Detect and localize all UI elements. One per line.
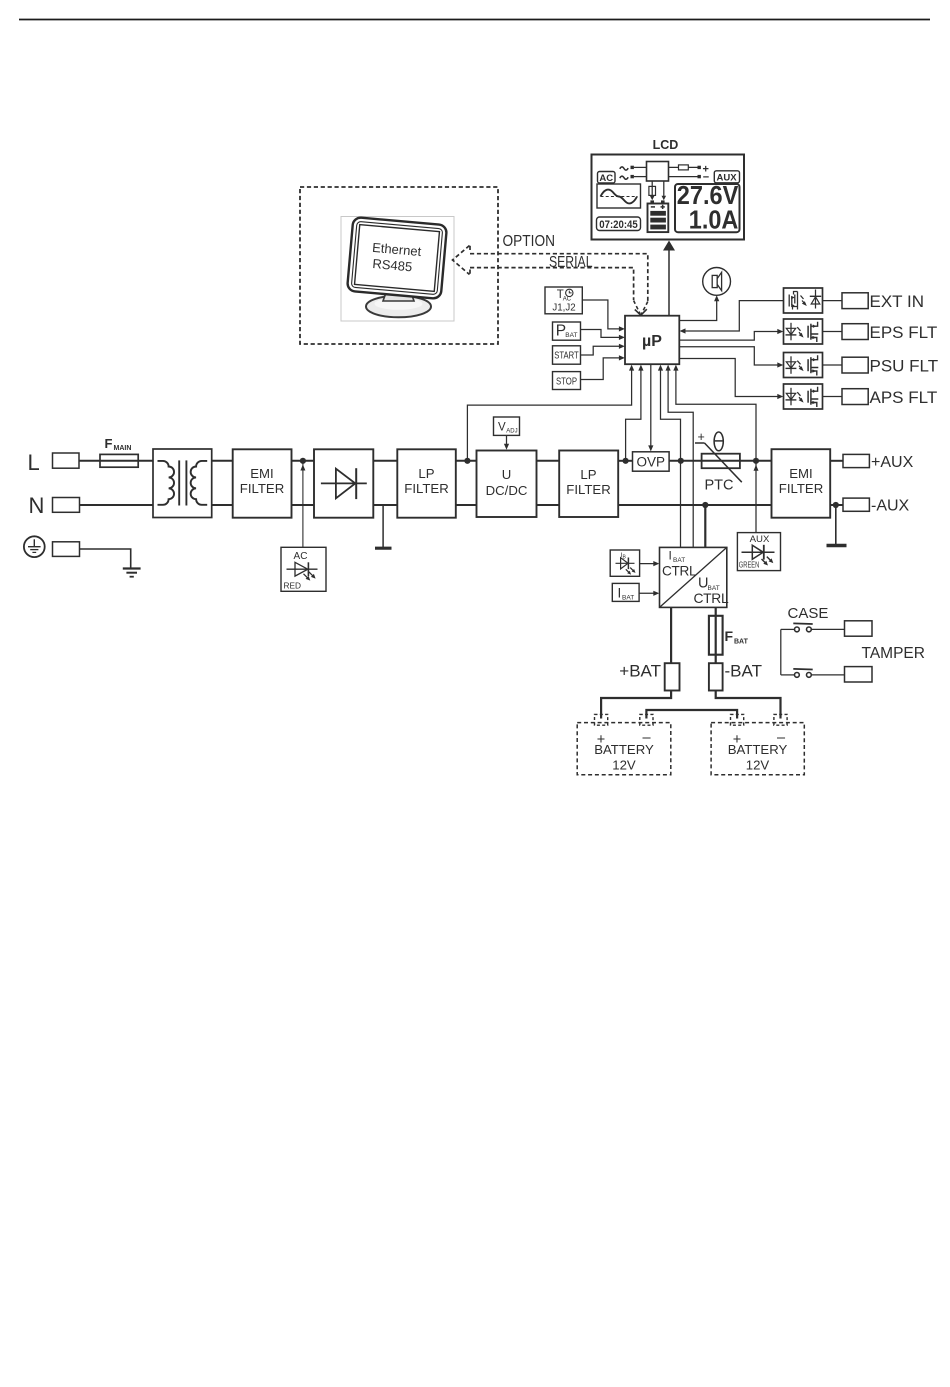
svg-text:MAIN: MAIN (114, 445, 132, 452)
node junction AUX LED tap (753, 458, 759, 464)
svg-text:LCD: LCD (653, 138, 679, 152)
EMI FILTER 1 (233, 449, 292, 517)
connector L (53, 453, 80, 468)
LCD sine-wave box (597, 184, 641, 208)
svg-text:BATTERY: BATTERY (728, 742, 788, 757)
svg-text:I: I (618, 586, 622, 601)
wire LP to UDC/DC (456, 460, 477, 462)
svg-text:F: F (725, 628, 734, 644)
LED AUX indicator GREEN (737, 533, 780, 571)
speaker buzzer (703, 268, 731, 296)
LCD rectifier block (647, 162, 669, 182)
earth PE connector symbol (24, 536, 45, 557)
svg-text:-BAT: -BAT (725, 662, 762, 681)
wire EMI2 to +AUX (830, 460, 843, 462)
box START (553, 346, 581, 364)
LCD AC tab (598, 172, 616, 184)
wire L to transformer (79, 460, 153, 462)
connector +BAT (665, 663, 680, 690)
svg-text:AC: AC (599, 173, 613, 184)
wire uP pin b to rail left of OVP (626, 368, 641, 459)
LCD measurement display 27.6V 1.0A (675, 184, 740, 232)
ground earth symbol (123, 567, 141, 569)
svg-text:L: L (28, 450, 40, 475)
box STOP (553, 372, 581, 390)
svg-text:+: + (698, 430, 705, 444)
svg-text:BAT: BAT (734, 639, 749, 646)
wire uP to buzzer (679, 299, 716, 321)
connector APS FLT (842, 389, 868, 405)
node junction -AUX ground (833, 502, 839, 508)
wire transformer to EMI (212, 460, 233, 462)
dashed wire OPTION upper (470, 254, 648, 301)
svg-text:PTC: PTC (705, 478, 734, 494)
wire PBAT to uP (581, 330, 622, 338)
node junction AC LED tap (300, 458, 306, 464)
connector -AUX (843, 498, 869, 511)
wire PTC to EMI2 (740, 460, 772, 462)
dashed wire SERIAL lower (470, 268, 634, 300)
wire EMI to rectifier (292, 460, 315, 462)
top rule (19, 19, 930, 21)
monitor image frame (341, 217, 454, 322)
wire EXT IN to uP (683, 301, 784, 331)
wire LP2 to OVP (618, 460, 632, 462)
LCD time box 07:20:45 (597, 217, 641, 231)
svg-text:TAMPER: TAMPER (862, 645, 925, 662)
svg-text:+BAT: +BAT (619, 662, 661, 681)
wire uP pin e to AUX junction (676, 368, 756, 459)
wire bottom rail to BAT CTRL (702, 502, 708, 508)
wire uP pin d to BAT CTRL (668, 368, 693, 548)
wire uP to PSU opto (679, 347, 780, 365)
LCD DC output wires with fuse (669, 166, 698, 168)
connector EPS FLT (842, 324, 868, 340)
wire uP to APS opto (679, 359, 780, 397)
node junction OVP right (678, 458, 684, 464)
wire AUX junction to AUX LED (755, 463, 757, 533)
EMI FILTER 2 (772, 449, 831, 518)
wire series link battery1 minus to battery2 plus (646, 710, 737, 719)
wire U to LP2 (537, 460, 560, 462)
connector EXT IN (842, 293, 868, 309)
OVP block (633, 452, 670, 471)
svg-text:PSU FLT: PSU FLT (870, 356, 939, 375)
wire EMI2 to -AUX (830, 504, 843, 506)
svg-text:STOP: STOP (556, 376, 577, 387)
AC LED indicator RED (281, 547, 326, 591)
connector -BAT (709, 663, 723, 690)
optocoupler EPS FLT (784, 319, 823, 344)
LCD battery terminals (650, 200, 654, 203)
wire TAC to uP (582, 300, 621, 329)
svg-text:27.6V: 27.6V (677, 180, 739, 210)
rectifier diode D1 (314, 449, 373, 517)
svg-text:12V: 12V (612, 758, 636, 773)
wire IBAT to BAT CTRL (639, 592, 656, 594)
LED IB indicator (610, 550, 639, 576)
svg-text:ADJ: ADJ (506, 429, 517, 435)
fuse FBAT (709, 616, 723, 655)
box PBAT (553, 322, 581, 340)
ground under rectifier (382, 505, 384, 548)
svg-text:U: U (502, 467, 512, 482)
wire tamper common (780, 629, 782, 675)
svg-text:GREEN: GREEN (739, 560, 760, 570)
LCD AC input wires (620, 167, 628, 170)
svg-text:CTRL: CTRL (662, 564, 697, 579)
svg-text:N: N (29, 493, 45, 518)
connector PSU FLT (842, 357, 868, 373)
box TAC J1,J2 (545, 287, 582, 314)
svg-text:APS FLT: APS FLT (870, 388, 938, 407)
wire OVP to PTC (669, 460, 702, 462)
node junction U feedback (464, 458, 470, 464)
svg-text:LP: LP (580, 467, 596, 482)
svg-text:EXT IN: EXT IN (870, 292, 924, 311)
svg-text:I: I (669, 549, 672, 563)
monitor base (366, 296, 431, 318)
monitor screen Ethernet RS485 (347, 217, 447, 299)
svg-text:1.0A: 1.0A (689, 207, 739, 235)
fuse FMAIN (100, 454, 138, 467)
LCD charger wires with fuse (651, 181, 653, 199)
wire STOP to uP (581, 358, 622, 380)
svg-text:EMI: EMI (250, 466, 273, 481)
connector tamper top (845, 621, 873, 636)
svg-text:CASE: CASE (788, 605, 829, 622)
connector +AUX (843, 454, 869, 467)
transformer T1 (153, 449, 212, 518)
optocoupler APS FLT (784, 384, 823, 409)
svg-text:AUX: AUX (750, 534, 770, 545)
connector N (53, 498, 80, 513)
svg-text:OVP: OVP (637, 455, 666, 470)
svg-text:AC: AC (563, 296, 572, 302)
svg-text:FILTER: FILTER (779, 481, 823, 496)
LCD battery symbol (648, 204, 669, 233)
wire uP to EPS opto (679, 332, 780, 341)
svg-text:FILTER: FILTER (404, 481, 448, 496)
svg-text:BAT: BAT (622, 595, 634, 602)
wire arrow from uP to LCD (668, 250, 670, 316)
LP FILTER 1 (397, 449, 456, 517)
svg-text:OPTION: OPTION (503, 233, 556, 250)
connector tamper bottom (845, 667, 873, 682)
wire junction to AC LED (302, 463, 304, 547)
controller BAT CTRL / UBAT CTRL (660, 547, 729, 607)
tamper switch bottom (781, 669, 845, 677)
box VADJ (494, 417, 520, 435)
optocoupler EXT IN (784, 288, 823, 313)
ground under -AUX (835, 505, 837, 545)
svg-text:BAT: BAT (565, 332, 577, 339)
wire bottom rail LP2 to EMI2 (618, 504, 771, 506)
wire rectifier to LP (373, 460, 397, 462)
svg-text:EMI: EMI (789, 466, 812, 481)
svg-text:EPS FLT: EPS FLT (870, 323, 938, 342)
battery B1 12V (577, 723, 671, 775)
svg-text:07:20:45: 07:20:45 (599, 219, 638, 231)
node junction OVP left (623, 458, 629, 464)
svg-text:J1,J2: J1,J2 (552, 303, 575, 314)
wire feedback junction to uP (467, 368, 631, 461)
svg-text:RED: RED (284, 581, 302, 591)
svg-text:F: F (105, 436, 113, 451)
svg-text:FILTER: FILTER (566, 482, 610, 497)
svg-text:+AUX: +AUX (871, 454, 914, 471)
svg-text:FILTER: FILTER (240, 481, 284, 496)
wire VADJ arrow to U DC/DC (506, 435, 508, 446)
wire uP pin c to rail right of OVP and BAT CTRL (661, 368, 681, 459)
optocoupler PSU FLT (784, 353, 823, 378)
wire IB LED to BAT CTRL (640, 563, 657, 565)
dashed hollow arrow to monitor (453, 246, 470, 275)
svg-text:12V: 12V (746, 758, 770, 773)
wire PE to earth (80, 549, 131, 568)
LP FILTER 2 (559, 451, 618, 518)
wire BAT CTRL to FBAT (715, 607, 717, 663)
wire BAT CTRL to +BAT (670, 607, 672, 663)
wire N to transformer (80, 504, 154, 506)
svg-text:AC: AC (294, 551, 308, 562)
svg-text:CTRL: CTRL (694, 591, 729, 606)
wire +BAT to battery1 plus (601, 691, 671, 719)
converter U DC/DC (477, 451, 537, 518)
op-amp uP microprocessor (625, 316, 679, 365)
box IBAT (612, 583, 639, 601)
svg-text:-AUX: -AUX (871, 498, 910, 515)
LCD panel U-display (592, 155, 745, 240)
svg-text:START: START (554, 351, 579, 362)
OPTION dashed box (300, 187, 498, 344)
thermistor PTC (695, 430, 742, 494)
battery B2 12V (711, 723, 804, 775)
wire uP to OVP (650, 365, 652, 449)
dashed arrowhead into uP top (634, 301, 641, 315)
wire START to uP (581, 346, 622, 355)
tamper switch top (781, 623, 845, 631)
svg-text:LP: LP (418, 466, 434, 481)
LCD AUX tab (714, 171, 739, 183)
wire -BAT to battery2 minus (716, 691, 781, 719)
svg-text:µP: µP (642, 333, 662, 350)
svg-text:BATTERY: BATTERY (594, 742, 654, 757)
connector PE (53, 542, 80, 557)
svg-text:DC/DC: DC/DC (486, 483, 528, 498)
svg-text:V: V (498, 422, 506, 434)
battery terminal clips (595, 714, 608, 725)
